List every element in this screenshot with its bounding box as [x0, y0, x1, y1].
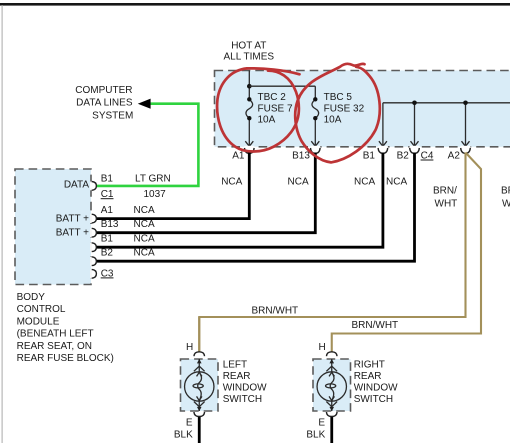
- svg-text:COMPUTER: COMPUTER: [75, 85, 132, 96]
- svg-text:REAR: REAR: [223, 371, 251, 382]
- svg-text:REAR FUSE BLOCK): REAR FUSE BLOCK): [17, 353, 114, 364]
- svg-text:SYSTEM: SYSTEM: [92, 110, 133, 121]
- svg-text:A1: A1: [101, 205, 114, 216]
- svg-text:BRN/: BRN/: [433, 186, 457, 197]
- svg-text:E: E: [186, 418, 193, 429]
- svg-text:B13: B13: [292, 151, 310, 162]
- svg-text:C3: C3: [101, 268, 114, 279]
- svg-text:RIGHT: RIGHT: [354, 359, 385, 370]
- svg-text:BODY: BODY: [17, 292, 46, 303]
- svg-text:BRN/WHT: BRN/WHT: [252, 305, 299, 316]
- svg-text:WHT: WHT: [502, 199, 510, 210]
- svg-text:NCA: NCA: [221, 176, 242, 187]
- svg-text:WINDOW: WINDOW: [223, 382, 267, 393]
- svg-text:NCA: NCA: [134, 234, 155, 245]
- svg-text:LT GRN: LT GRN: [135, 173, 171, 184]
- svg-text:NCA: NCA: [288, 176, 309, 187]
- svg-text:TBC 2: TBC 2: [258, 92, 287, 103]
- svg-text:SWITCH: SWITCH: [223, 394, 262, 405]
- svg-text:BRN/: BRN/: [501, 186, 510, 197]
- svg-text:HOT AT: HOT AT: [231, 41, 266, 52]
- svg-text:H: H: [186, 342, 193, 353]
- svg-text:BLK: BLK: [174, 430, 193, 441]
- svg-text:(BENEATH LEFT: (BENEATH LEFT: [17, 329, 94, 340]
- svg-text:TBC 5: TBC 5: [324, 92, 353, 103]
- svg-text:10A: 10A: [324, 115, 342, 126]
- svg-text:B13: B13: [101, 219, 119, 230]
- svg-text:DATA: DATA: [64, 180, 90, 191]
- svg-text:FUSE 7: FUSE 7: [258, 103, 293, 114]
- svg-text:WHT: WHT: [435, 199, 458, 210]
- svg-text:B1: B1: [101, 234, 114, 245]
- svg-text:10A: 10A: [258, 115, 276, 126]
- svg-text:MODULE: MODULE: [17, 316, 60, 327]
- svg-text:WINDOW: WINDOW: [354, 382, 398, 393]
- svg-text:NCA: NCA: [134, 219, 155, 230]
- svg-text:E: E: [318, 418, 325, 429]
- svg-text:DATA LINES: DATA LINES: [76, 98, 133, 109]
- svg-text:FUSE 32: FUSE 32: [324, 103, 365, 114]
- svg-text:NCA: NCA: [386, 176, 407, 187]
- svg-text:C4: C4: [421, 151, 434, 162]
- svg-text:ALL TIMES: ALL TIMES: [224, 52, 275, 63]
- svg-text:H: H: [318, 342, 325, 353]
- svg-text:NCA: NCA: [134, 248, 155, 259]
- svg-text:REAR: REAR: [354, 371, 382, 382]
- svg-text:A1: A1: [232, 151, 245, 162]
- svg-text:BLK: BLK: [306, 430, 325, 441]
- svg-text:BATT +: BATT +: [56, 214, 89, 225]
- svg-text:B1: B1: [363, 151, 376, 162]
- svg-text:BRN/WHT: BRN/WHT: [352, 320, 399, 331]
- svg-text:REAR SEAT, ON: REAR SEAT, ON: [17, 341, 92, 352]
- svg-text:LEFT: LEFT: [223, 359, 247, 370]
- svg-text:1037: 1037: [144, 189, 167, 200]
- svg-text:BATT +: BATT +: [56, 228, 89, 239]
- svg-text:B1: B1: [101, 173, 114, 184]
- svg-text:B2: B2: [397, 151, 410, 162]
- svg-text:C1: C1: [101, 189, 114, 200]
- svg-text:A2: A2: [448, 151, 461, 162]
- svg-text:SWITCH: SWITCH: [354, 394, 393, 405]
- svg-text:NCA: NCA: [354, 176, 375, 187]
- svg-text:NCA: NCA: [134, 205, 155, 216]
- svg-text:B2: B2: [101, 248, 114, 259]
- svg-text:CONTROL: CONTROL: [17, 304, 66, 315]
